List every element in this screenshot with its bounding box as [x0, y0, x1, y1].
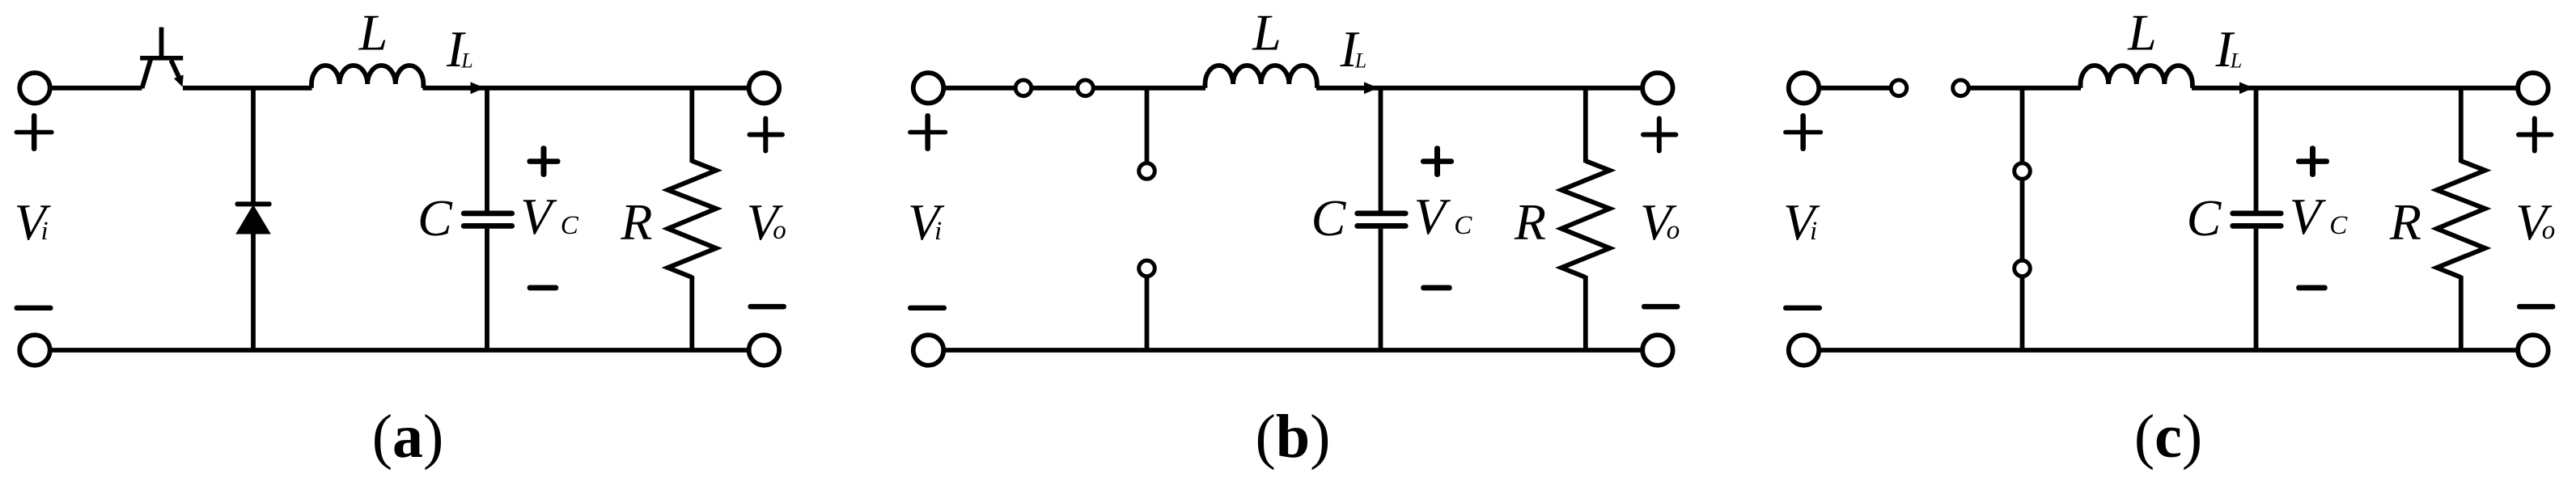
- capacitor C plates (c): [2230, 211, 2283, 217]
- wire: node A2 down to capacitor C top plate (a): [485, 88, 489, 211]
- svg-text:L: L: [358, 4, 388, 61]
- svg-text:o: o: [773, 216, 786, 245]
- node Vo- output terminal (b): [1642, 335, 1673, 366]
- wire: Vi+ terminal through closed switch S1 to inductor (b): [946, 86, 1205, 91]
- switch S1 contact terminal right (c): [1953, 80, 1969, 96]
- wire: top rail down to resistor R (a): [689, 88, 694, 163]
- wire: diode D1 anode to bottom rail: [251, 232, 256, 350]
- wire: capacitor C bottom plate to bottom rail (a): [485, 229, 489, 350]
- svg-text:i: i: [934, 217, 942, 246]
- output polarity plus (b): [1641, 133, 1678, 137]
- input polarity plus (b): [908, 130, 947, 135]
- switch S1 contact terminal left (c): [1891, 80, 1907, 96]
- wire: resistor R to bottom rail (a): [689, 276, 694, 350]
- node Vi- input terminal (a): [19, 335, 50, 366]
- node Vi+ input terminal (b): [913, 73, 944, 104]
- svg-text:C: C: [1454, 211, 1472, 240]
- input polarity minus (b): [908, 306, 947, 311]
- svg-text:R: R: [620, 193, 652, 251]
- svg-text:C: C: [1311, 189, 1347, 247]
- output polarity minus (c): [2517, 304, 2555, 310]
- current arrow IL (a): [471, 82, 485, 94]
- inductor L (c): [2081, 66, 2193, 88]
- svg-text:(c): (c): [2134, 403, 2202, 471]
- wire: node A down to open switch S2 top contact (b): [1145, 88, 1150, 171]
- wire: capacitor C bottom plate to bottom rail (b): [1379, 229, 1383, 350]
- capacitor polarity minus (b): [1421, 285, 1452, 291]
- wire: inductor output to Vo+ terminal (c): [2192, 86, 2517, 91]
- capacitor C plates (a): [461, 211, 515, 217]
- node Vi- input terminal (b): [913, 335, 944, 366]
- capacitor polarity plus (b): [1421, 158, 1454, 164]
- output polarity minus (b): [1642, 304, 1680, 310]
- capacitor C plates (b): [1354, 211, 1408, 217]
- wire: Vi+ terminal to switch Q1 collector (a): [53, 86, 142, 91]
- transistor Q1 emitter slant with arrow: [171, 60, 179, 77]
- svg-text:i: i: [1810, 217, 1817, 246]
- node Vi- input terminal (c): [1789, 335, 1820, 366]
- switch S2 bottom contact terminal (b): [1139, 260, 1155, 277]
- output polarity plus (a): [748, 133, 785, 137]
- diode D1 cathode bar: [235, 201, 272, 206]
- node Vi+ input terminal (c): [1789, 73, 1820, 104]
- svg-text:C: C: [561, 211, 579, 240]
- svg-text:C: C: [417, 189, 453, 247]
- wire: node A2 down to capacitor C top plate (c): [2254, 88, 2259, 211]
- resistor R zigzag (a): [667, 161, 716, 277]
- switch S2 top contact terminal (b): [1139, 163, 1155, 180]
- wire: bottom return rail (c): [1821, 348, 2517, 353]
- svg-text:R: R: [1514, 193, 1546, 251]
- svg-text:L: L: [2127, 4, 2157, 61]
- wire: Vi+ terminal to open switch S1 left contact (c): [1821, 86, 1899, 91]
- wire: top rail down to resistor R (b): [1583, 88, 1588, 163]
- diode D1 anode triangle: [235, 205, 271, 235]
- wire: node A down to diode D1 cathode: [251, 88, 256, 204]
- node Vo- output terminal (a): [749, 335, 780, 366]
- wire: switch emitter to inductor, node A (a): [183, 86, 312, 91]
- current arrow IL (b): [1364, 82, 1379, 94]
- input polarity plus (a): [15, 130, 54, 135]
- wire: resistor R to bottom rail (b): [1583, 276, 1588, 350]
- transistor Q1 (IGBT switch) base bar: [140, 56, 183, 61]
- svg-text:o: o: [2542, 216, 2556, 245]
- switch S2 bottom contact terminal (c): [2015, 260, 2031, 277]
- wire: resistor R to bottom rail (c): [2459, 276, 2464, 350]
- svg-text:L: L: [2230, 49, 2242, 73]
- capacitor polarity minus (c): [2296, 285, 2328, 291]
- output polarity minus (a): [748, 304, 786, 310]
- svg-text:o: o: [1667, 216, 1680, 245]
- wire: bottom return rail (a): [53, 348, 748, 353]
- input polarity minus (a): [15, 306, 53, 311]
- transistor Q1 gate lead: [159, 27, 164, 58]
- node Vo+ output terminal (c): [2518, 73, 2548, 104]
- input polarity plus (c): [1783, 130, 1823, 135]
- svg-text:L: L: [1354, 49, 1366, 73]
- svg-text:(b): (b): [1256, 403, 1331, 471]
- input polarity minus (c): [1783, 306, 1822, 311]
- svg-text:C: C: [2187, 189, 2222, 247]
- wire: bottom return rail (b): [946, 348, 1642, 353]
- current arrow IL (c): [2239, 82, 2254, 94]
- svg-text:R: R: [2389, 193, 2421, 251]
- capacitor polarity minus (a): [527, 285, 559, 291]
- output polarity plus (c): [2516, 133, 2553, 137]
- wire: node A through closed switch S2 to bottom rail (c): [2020, 88, 2025, 350]
- transistor Q1 collector slant: [142, 59, 151, 89]
- inductor L (a): [311, 66, 423, 88]
- wire: capacitor C bottom plate to bottom rail (c): [2254, 229, 2259, 350]
- switch S1 contact terminal right (b): [1078, 80, 1094, 96]
- wire: switch S2 bottom contact to bottom rail (b): [1145, 268, 1150, 350]
- svg-text:i: i: [41, 217, 49, 246]
- wire: open switch S1 right contact to inductor (c): [1961, 86, 2082, 91]
- switch S2 top contact terminal (c): [2015, 163, 2031, 180]
- switch S1 contact terminal left (b): [1015, 80, 1032, 96]
- svg-text:C: C: [2329, 211, 2348, 240]
- wire: top rail down to resistor R (c): [2459, 88, 2464, 163]
- resistor R zigzag (b): [1561, 161, 1610, 277]
- inductor L (b): [1205, 66, 1317, 88]
- capacitor polarity plus (c): [2296, 158, 2329, 164]
- svg-text:L: L: [1252, 4, 1282, 61]
- node Vo- output terminal (c): [2518, 335, 2548, 366]
- svg-text:L: L: [460, 49, 472, 73]
- node Vo+ output terminal (b): [1642, 73, 1673, 104]
- node Vi+ input terminal (a): [19, 73, 50, 104]
- capacitor polarity plus (a): [527, 158, 561, 164]
- wire: inductor output to Vo+ terminal (a): [423, 86, 748, 91]
- node Vo+ output terminal (a): [749, 73, 780, 104]
- resistor R zigzag (c): [2437, 161, 2485, 277]
- svg-text:(a): (a): [372, 403, 444, 471]
- wire: node A2 down to capacitor C top plate (b): [1379, 88, 1383, 211]
- wire: inductor output to Vo+ terminal (b): [1316, 86, 1642, 91]
